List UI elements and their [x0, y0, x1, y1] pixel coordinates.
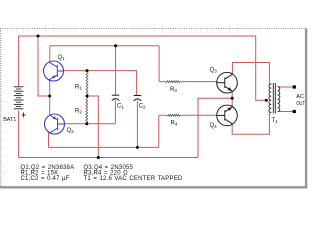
node R1 / R2 tap — [86, 95, 89, 98]
wire battery top lead — [18, 36, 20, 87]
resistor R3 — [165, 81, 180, 83]
transformer T1 primary winding — [269, 84, 271, 113]
wire Q1 collector lead — [49, 46, 51, 62]
wire R4 to Q4 base — [180, 114, 216, 116]
wire C1 bottom lead — [114, 100, 116, 124]
wire R3 to Q3 base — [180, 81, 216, 83]
node transformer center tap — [265, 99, 268, 102]
resistor R4 — [167, 114, 180, 116]
transformer T1 winding stubs — [269, 84, 271, 112]
page border right — [305, 29, 307, 189]
wire Q4 collector to transformer — [232, 113, 269, 134]
svg-text:Q1: Q1 — [58, 55, 66, 61]
capacitor C2 — [134, 96, 142, 101]
svg-text:T1: T1 — [272, 118, 279, 124]
node Q2 base / R2 — [85, 122, 88, 125]
svg-text:C2: C2 — [139, 103, 146, 109]
wire Q4 emitter lead — [231, 98, 233, 107]
battery BAT1 — [14, 87, 24, 109]
wire Q2 emitter lead — [49, 96, 51, 115]
svg-text:Q4: Q4 — [210, 123, 218, 129]
wire Q3 collector to transformer — [232, 63, 269, 85]
svg-text:R4: R4 — [171, 120, 178, 126]
wire R3 feed — [158, 46, 160, 82]
node C2 / Q2 rail — [136, 146, 139, 149]
wire secondary bottom lead — [278, 111, 294, 113]
wire C2 top lead — [136, 71, 138, 96]
resistor R2 — [86, 97, 88, 124]
wire center tap riser — [256, 36, 268, 100]
svg-text:C1,C2 = 0.47 µF: C1,C2 = 0.47 µF — [21, 176, 70, 182]
page border top — [0, 28, 306, 30]
wire Q1 emitter lead — [49, 80, 51, 96]
node emitters Q1 Q2 — [48, 95, 51, 98]
transformer T1 core — [273, 83, 275, 114]
wire Q2 base line — [65, 123, 116, 125]
svg-text:Q3: Q3 — [210, 68, 218, 74]
wire Q2 collector rail — [49, 115, 159, 147]
terminal AC top — [293, 85, 296, 88]
svg-text:R3: R3 — [170, 87, 177, 93]
capacitor C1 — [112, 95, 120, 100]
svg-text:OUT: OUT — [296, 101, 305, 107]
svg-text:C1: C1 — [117, 103, 124, 109]
resistor R1 — [86, 71, 88, 95]
node top bus / Q branch — [37, 35, 40, 38]
wire top supply bus — [19, 35, 256, 37]
page border bottom — [0, 186, 307, 188]
wire Q2 collector lead — [48, 132, 50, 147]
svg-text:Q2: Q2 — [67, 128, 75, 134]
page border left — [0, 29, 2, 188]
wire Q3 emitter lead — [231, 92, 233, 99]
wire C1 top lead — [115, 46, 117, 95]
wire R3 left lead — [159, 81, 165, 83]
wire battery bottom lead — [18, 111, 20, 158]
battery plus sign — [22, 112, 26, 117]
wire secondary top lead — [278, 86, 294, 88]
svg-text:R2: R2 — [75, 109, 82, 115]
transformer T1 secondary winding — [278, 87, 280, 112]
wire R4 left lead — [159, 114, 167, 116]
transistor Q2 — [45, 114, 65, 134]
node C1 / collector rail — [114, 44, 117, 47]
node Q1 base / R1 — [86, 69, 89, 72]
terminal AC bottom — [293, 110, 296, 113]
svg-text:R1: R1 — [75, 85, 82, 91]
wire bottom return bus — [19, 157, 198, 159]
svg-text:BAT1: BAT1 — [3, 117, 16, 123]
wire R1-R2 tap — [87, 96, 98, 158]
svg-text:T1 = 12.6 VAC CENTER TAPPED: T1 = 12.6 VAC CENTER TAPPED — [84, 176, 183, 182]
node Q3 Q4 emitters — [231, 97, 234, 100]
node tap / bottom bus — [97, 156, 100, 159]
wire branch down x38 — [38, 36, 50, 96]
svg-text:AC: AC — [296, 94, 304, 100]
wire Q1 base line — [64, 70, 137, 72]
transistor Q1 — [44, 61, 64, 81]
parts list column 1 — [21, 165, 75, 182]
wire Q1 collector rail — [50, 45, 159, 47]
wire emitter riser — [198, 98, 232, 157]
wire C2 bottom lead — [136, 101, 138, 148]
transistor Q4 — [217, 105, 238, 126]
transistor Q3 — [217, 72, 238, 93]
parts list column 2 — [84, 165, 183, 182]
